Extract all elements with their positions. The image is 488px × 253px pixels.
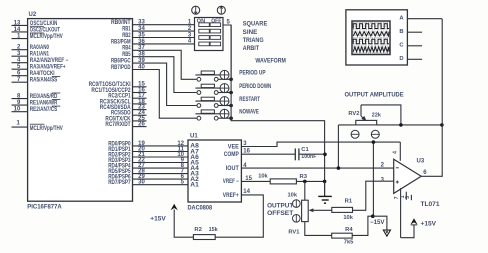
svg-text:RA1/AN1: RA1/AN1 — [30, 52, 50, 58]
U2 pin 8 RE0/AN5/RD — [12, 93, 61, 100]
wire U3 pin 7 to +15V — [401, 225, 414, 238]
junction ground bus / PERIOD DOWN — [229, 91, 233, 95]
svg-text:RB0/INT: RB0/INT — [111, 20, 131, 26]
svg-text:RV1: RV1 — [288, 229, 300, 235]
svg-text:OUTPUT AMPLITUDE: OUTPUT AMPLITUDE — [345, 92, 404, 99]
U1 pin 4 IOUT / wire to op-amp pin 2 — [226, 163, 394, 172]
wire U2 pin 27 RD4/PSP4 to U1 pin 8 A4 — [108, 163, 188, 170]
svg-text:5: 5 — [405, 196, 411, 199]
svg-text:IOUT: IOUT — [226, 166, 239, 172]
pushbutton S4 NOWAVE — [195, 109, 259, 120]
svg-text:RV2: RV2 — [348, 111, 359, 117]
U2 pin 40 RB7/PGD / wire to pushbutton — [111, 64, 197, 118]
wire R4 to -15V node — [352, 216, 373, 235]
junction -15V rail / R4 — [371, 214, 375, 218]
svg-text:OSC2/CLKOUT: OSC2/CLKOUT — [30, 27, 60, 33]
U3 pin 4 (V-) — [392, 142, 400, 161]
svg-text:10: 10 — [14, 107, 21, 113]
wire U2 pin 22 RD3/PSP3 to U1 pin 9 A5 — [108, 157, 188, 164]
svg-text:RB3/PGM: RB3/PGM — [111, 39, 131, 45]
U2 pin 5 RA3/AN3/VREF+ — [12, 64, 66, 70]
DIP switch SW1 (waveform select) — [195, 18, 224, 51]
scope channel B stub — [399, 29, 422, 35]
U2 pin 33 RB0/INT / wire to DIP SW pin 1 — [111, 20, 195, 27]
svg-text:C1: C1 — [301, 147, 309, 153]
junction C1/ground bus — [323, 153, 327, 157]
svg-text:B: B — [399, 29, 403, 35]
DIP switch screw symbol right (up) — [217, 6, 225, 14]
RV2 wiper arrow — [361, 105, 367, 121]
label OUTPUT OFFSET — [267, 203, 294, 217]
svg-text:RB4: RB4 — [122, 46, 131, 52]
svg-text:7k5: 7k5 — [344, 239, 354, 245]
junction ground bus / NOWAVE — [229, 116, 233, 120]
svg-text:A1: A1 — [190, 183, 199, 189]
U3 pin 7 (V+) — [394, 188, 401, 238]
svg-text:TRIANG: TRIANG — [243, 38, 264, 44]
junction feedback / IOUT line — [337, 166, 341, 170]
wire U2 pin 19 RD0/PSP0 to U1 pin 12 A8 — [108, 141, 188, 148]
svg-text:DAC0808: DAC0808 — [188, 206, 213, 212]
U2 pin 4 RA2/AN2/VREF − — [12, 58, 69, 64]
svg-text:COMP: COMP — [224, 152, 239, 158]
wire U3 output pin 6 to scope — [421, 19, 442, 177]
svg-text:10k: 10k — [343, 215, 353, 221]
wire U2 pin 21 RD2/PSP2 to U1 pin 10 A6 — [108, 152, 188, 159]
U2 pin 38 RB5 / wire to pushbutton — [122, 52, 196, 93]
U2 pin 17 RC2/CCP1 stub — [108, 93, 146, 100]
svg-text:SINE: SINE — [243, 30, 258, 36]
wire RV2 left to op-amp pin 2 net — [337, 125, 339, 168]
power +15V (op-amp supply) — [410, 218, 436, 227]
junction -15V rail / VEE line — [372, 140, 376, 144]
svg-text:D: D — [399, 56, 403, 62]
svg-text:13: 13 — [14, 20, 21, 26]
svg-text:MCLR/Vpp/THV: MCLR/Vpp/THV — [30, 34, 63, 40]
svg-text:RA4/TOCKI: RA4/TOCKI — [30, 71, 55, 77]
svg-text:R2: R2 — [194, 227, 202, 233]
svg-text:RB7/PGD: RB7/PGD — [111, 65, 131, 71]
svg-text:RD7/PSP7: RD7/PSP7 — [108, 180, 131, 186]
svg-text:RB1: RB1 — [122, 27, 131, 33]
U2 pin 2 RA0/AN0 — [12, 45, 50, 51]
svg-text:14: 14 — [243, 189, 250, 195]
wire C1 to ground bus — [299, 153, 325, 155]
U2 pin 36 RB3/PGM / wire to DIP SW pin 4 — [111, 39, 195, 46]
svg-text:R1: R1 — [345, 198, 353, 204]
svg-text:PERIOD DOWN: PERIOD DOWN — [239, 84, 271, 90]
U1 pin 3 VEE / wire to -15V rail — [228, 141, 400, 150]
svg-text:OFFSET: OFFSET — [267, 211, 294, 217]
svg-text:RESTART: RESTART — [239, 97, 260, 103]
U2 pin 1 MCLR/Vpp/THV — [12, 33, 63, 40]
U2 pin 24 RC5/SDO stub — [111, 110, 147, 117]
svg-text:VREF −: VREF − — [223, 179, 239, 185]
svg-text:14: 14 — [14, 27, 21, 33]
op-amp U3 TL071 — [381, 159, 441, 208]
svg-text:RB2: RB2 — [122, 33, 131, 39]
U3 pin 5 offset null stub — [405, 195, 411, 200]
junction R3/ground bus — [323, 180, 327, 184]
resistor R2 15k — [193, 227, 218, 239]
resistor R1 10k — [332, 198, 354, 221]
svg-text:R4: R4 — [345, 227, 353, 233]
label WAVEFORM — [255, 58, 286, 65]
wire U2 pin 29 RD6/PSP6 to U1 pin 6 A2 — [108, 174, 188, 181]
DIP switch screw symbol left (down) — [192, 6, 200, 14]
potentiometer RV1 10k (output offset) — [288, 192, 309, 235]
svg-text:VEE: VEE — [228, 144, 239, 150]
junction ground bus / RESTART — [229, 104, 233, 108]
U2 pin 3 RA1/AN1 — [12, 51, 50, 57]
svg-text:15k: 15k — [209, 227, 219, 233]
svg-text:−15V: −15V — [370, 220, 385, 226]
svg-text:+15V: +15V — [150, 217, 166, 223]
svg-text:OUTPUT: OUTPUT — [267, 203, 294, 209]
wire RV2 track (feedback) — [338, 124, 442, 126]
svg-text:10k: 10k — [258, 174, 268, 180]
capacitor C1 100nF — [295, 147, 317, 160]
svg-text:RA2/AN2/VREF −: RA2/AN2/VREF − — [30, 58, 69, 64]
U2 pin 1 MCLR/Vpp/THV (bottom) — [12, 121, 63, 132]
power +15V (DAC reference) — [150, 204, 178, 223]
wire ground bus to ground — [231, 118, 325, 196]
U2 pin 9 RE1/AN6/WR — [12, 100, 61, 107]
wire +15V to R2 — [174, 210, 193, 238]
U1 pin 16 COMP / wire to C1 — [224, 149, 295, 158]
svg-text:PIC16F877A: PIC16F877A — [27, 204, 62, 210]
svg-text:SQUARE: SQUARE — [243, 22, 268, 28]
pushbutton S2 PERIOD DOWN — [195, 84, 271, 95]
label SINE — [243, 30, 258, 36]
U2 pin 26 RC7/RX/DT stub — [105, 122, 146, 129]
U2 pin 39 RB6/PGC / wire to pushbutton — [111, 58, 197, 106]
svg-text:R3: R3 — [300, 174, 308, 180]
wire U2 pin 28 RD5/PSP5 to U1 pin 7 A3 — [108, 169, 188, 176]
svg-text:100nF: 100nF — [301, 154, 317, 160]
junction RV2 wiper loop / track — [399, 123, 403, 127]
U2 pin 18 RC3/SCK/SCL stub — [100, 99, 147, 106]
svg-text:RB5: RB5 — [122, 52, 131, 58]
svg-text:PERIOD UP: PERIOD UP — [239, 71, 265, 77]
U2 pin 6 RA4/TOCKI — [12, 71, 55, 77]
svg-text:RB6/PGC: RB6/PGC — [111, 59, 131, 65]
svg-text:10k: 10k — [288, 192, 298, 198]
wire U2 pin 20 RD1/PSP1 to U1 pin 11 A7 — [108, 146, 188, 153]
U1 pin 14 VREF+ / wire to R2 — [215, 189, 263, 237]
U2 pin 37 RB4 / wire to pushbutton — [122, 45, 196, 79]
svg-text:RA0/AN0: RA0/AN0 — [30, 45, 50, 51]
svg-text:RE1/AN6/WR: RE1/AN6/WR — [30, 101, 58, 107]
U3 pin 1 offset null stub — [400, 192, 407, 200]
pushbutton S3 RESTART — [195, 97, 260, 108]
wire DIP SW pin 5 to ground bus — [223, 19, 231, 79]
scope channel D stub — [399, 56, 422, 62]
svg-text:NOWAVE: NOWAVE — [239, 110, 259, 116]
label ARBIT — [243, 46, 260, 52]
wire RV1 top to R3 node — [304, 181, 306, 200]
junction RV2 track / output line — [440, 123, 444, 127]
svg-text:RA3/AN3/VREF+: RA3/AN3/VREF+ — [30, 65, 66, 71]
label OUTPUT AMPLITUDE — [345, 92, 404, 99]
potentiometer RV2 22k (output amplitude) — [348, 111, 381, 139]
label SQUARE — [243, 22, 268, 28]
U2 pin 10 RE2/AN7/CS — [12, 106, 61, 113]
svg-text:RC7/RX/DT: RC7/RX/DT — [105, 122, 130, 128]
wire U2 pin 30 RD7/PSP7 to U1 pin 5 A1 — [108, 180, 188, 187]
U2 pin 7 RA5/AN4/SS — [12, 77, 61, 84]
scope channel A / wire to op-amp output — [399, 15, 442, 21]
svg-text:U3: U3 — [417, 159, 425, 165]
U2 pin 23 RC4/SDI/SDA stub — [100, 105, 147, 112]
resistor R4 7k5 — [332, 227, 354, 245]
wire ground bus vertical — [230, 25, 232, 121]
wire R1 to op-amp pin 3 — [353, 181, 394, 210]
U2 pin 34 RB1 / wire to DIP SW pin 2 — [122, 26, 194, 33]
scope channel C stub — [399, 43, 422, 49]
U2 pin 13 OSC1/CLKIN — [12, 20, 58, 26]
RV1 wiper arrow / wire to R1 — [309, 208, 332, 212]
IC U2 PIC16F877A body — [27, 12, 132, 210]
ground — [318, 181, 332, 203]
svg-text:MCLR/Vpp/THV: MCLR/Vpp/THV — [30, 126, 63, 132]
svg-text:RA5/AN4/SS: RA5/AN4/SS — [30, 78, 58, 84]
svg-text:ARBIT: ARBIT — [243, 46, 260, 52]
svg-text:+15V: +15V — [421, 221, 437, 227]
IC U1 DAC0808 body — [188, 134, 242, 212]
U2 pin 25 RC6/TX/CK stub — [105, 116, 146, 123]
label TRIANG — [243, 38, 264, 44]
svg-text:TL071: TL071 — [421, 202, 441, 208]
U2 pin 16 RC1/T1OSI/CCP2 stub — [91, 87, 146, 94]
pushbutton S1 PERIOD UP — [195, 70, 265, 81]
svg-text:RE2/AN7/CS: RE2/AN7/CS — [30, 107, 58, 113]
junction ground bus / PERIOD UP — [229, 78, 233, 82]
power -15V — [370, 216, 391, 236]
wire -15V rail vertical — [372, 142, 374, 216]
junction R3/RV1 top — [303, 180, 307, 184]
svg-text:U1: U1 — [190, 134, 198, 140]
svg-text:4: 4 — [392, 151, 398, 154]
svg-text:WAVEFORM: WAVEFORM — [255, 58, 286, 65]
oscilloscope display (virtual instrument) — [346, 10, 408, 65]
svg-text:U2: U2 — [29, 12, 37, 18]
svg-text:VREF+: VREF+ — [223, 193, 239, 199]
wire R3 to ground bus — [296, 180, 324, 182]
U2 pin 14 OSC2/CLKOUT — [12, 26, 61, 33]
U2 pin 15 RC0/T1OSO/T1CKI stub — [89, 82, 147, 89]
wire RV1 bottom to R4 — [305, 222, 332, 236]
wire RV2 wiper to output — [361, 105, 401, 125]
resistor R3 10k — [258, 174, 308, 184]
U2 pin 35 RB2 / wire to DIP SW pin 3 — [122, 32, 194, 39]
svg-text:22k: 22k — [372, 113, 382, 119]
U1 pin 15 VREF- / wire to R3 — [223, 176, 270, 185]
